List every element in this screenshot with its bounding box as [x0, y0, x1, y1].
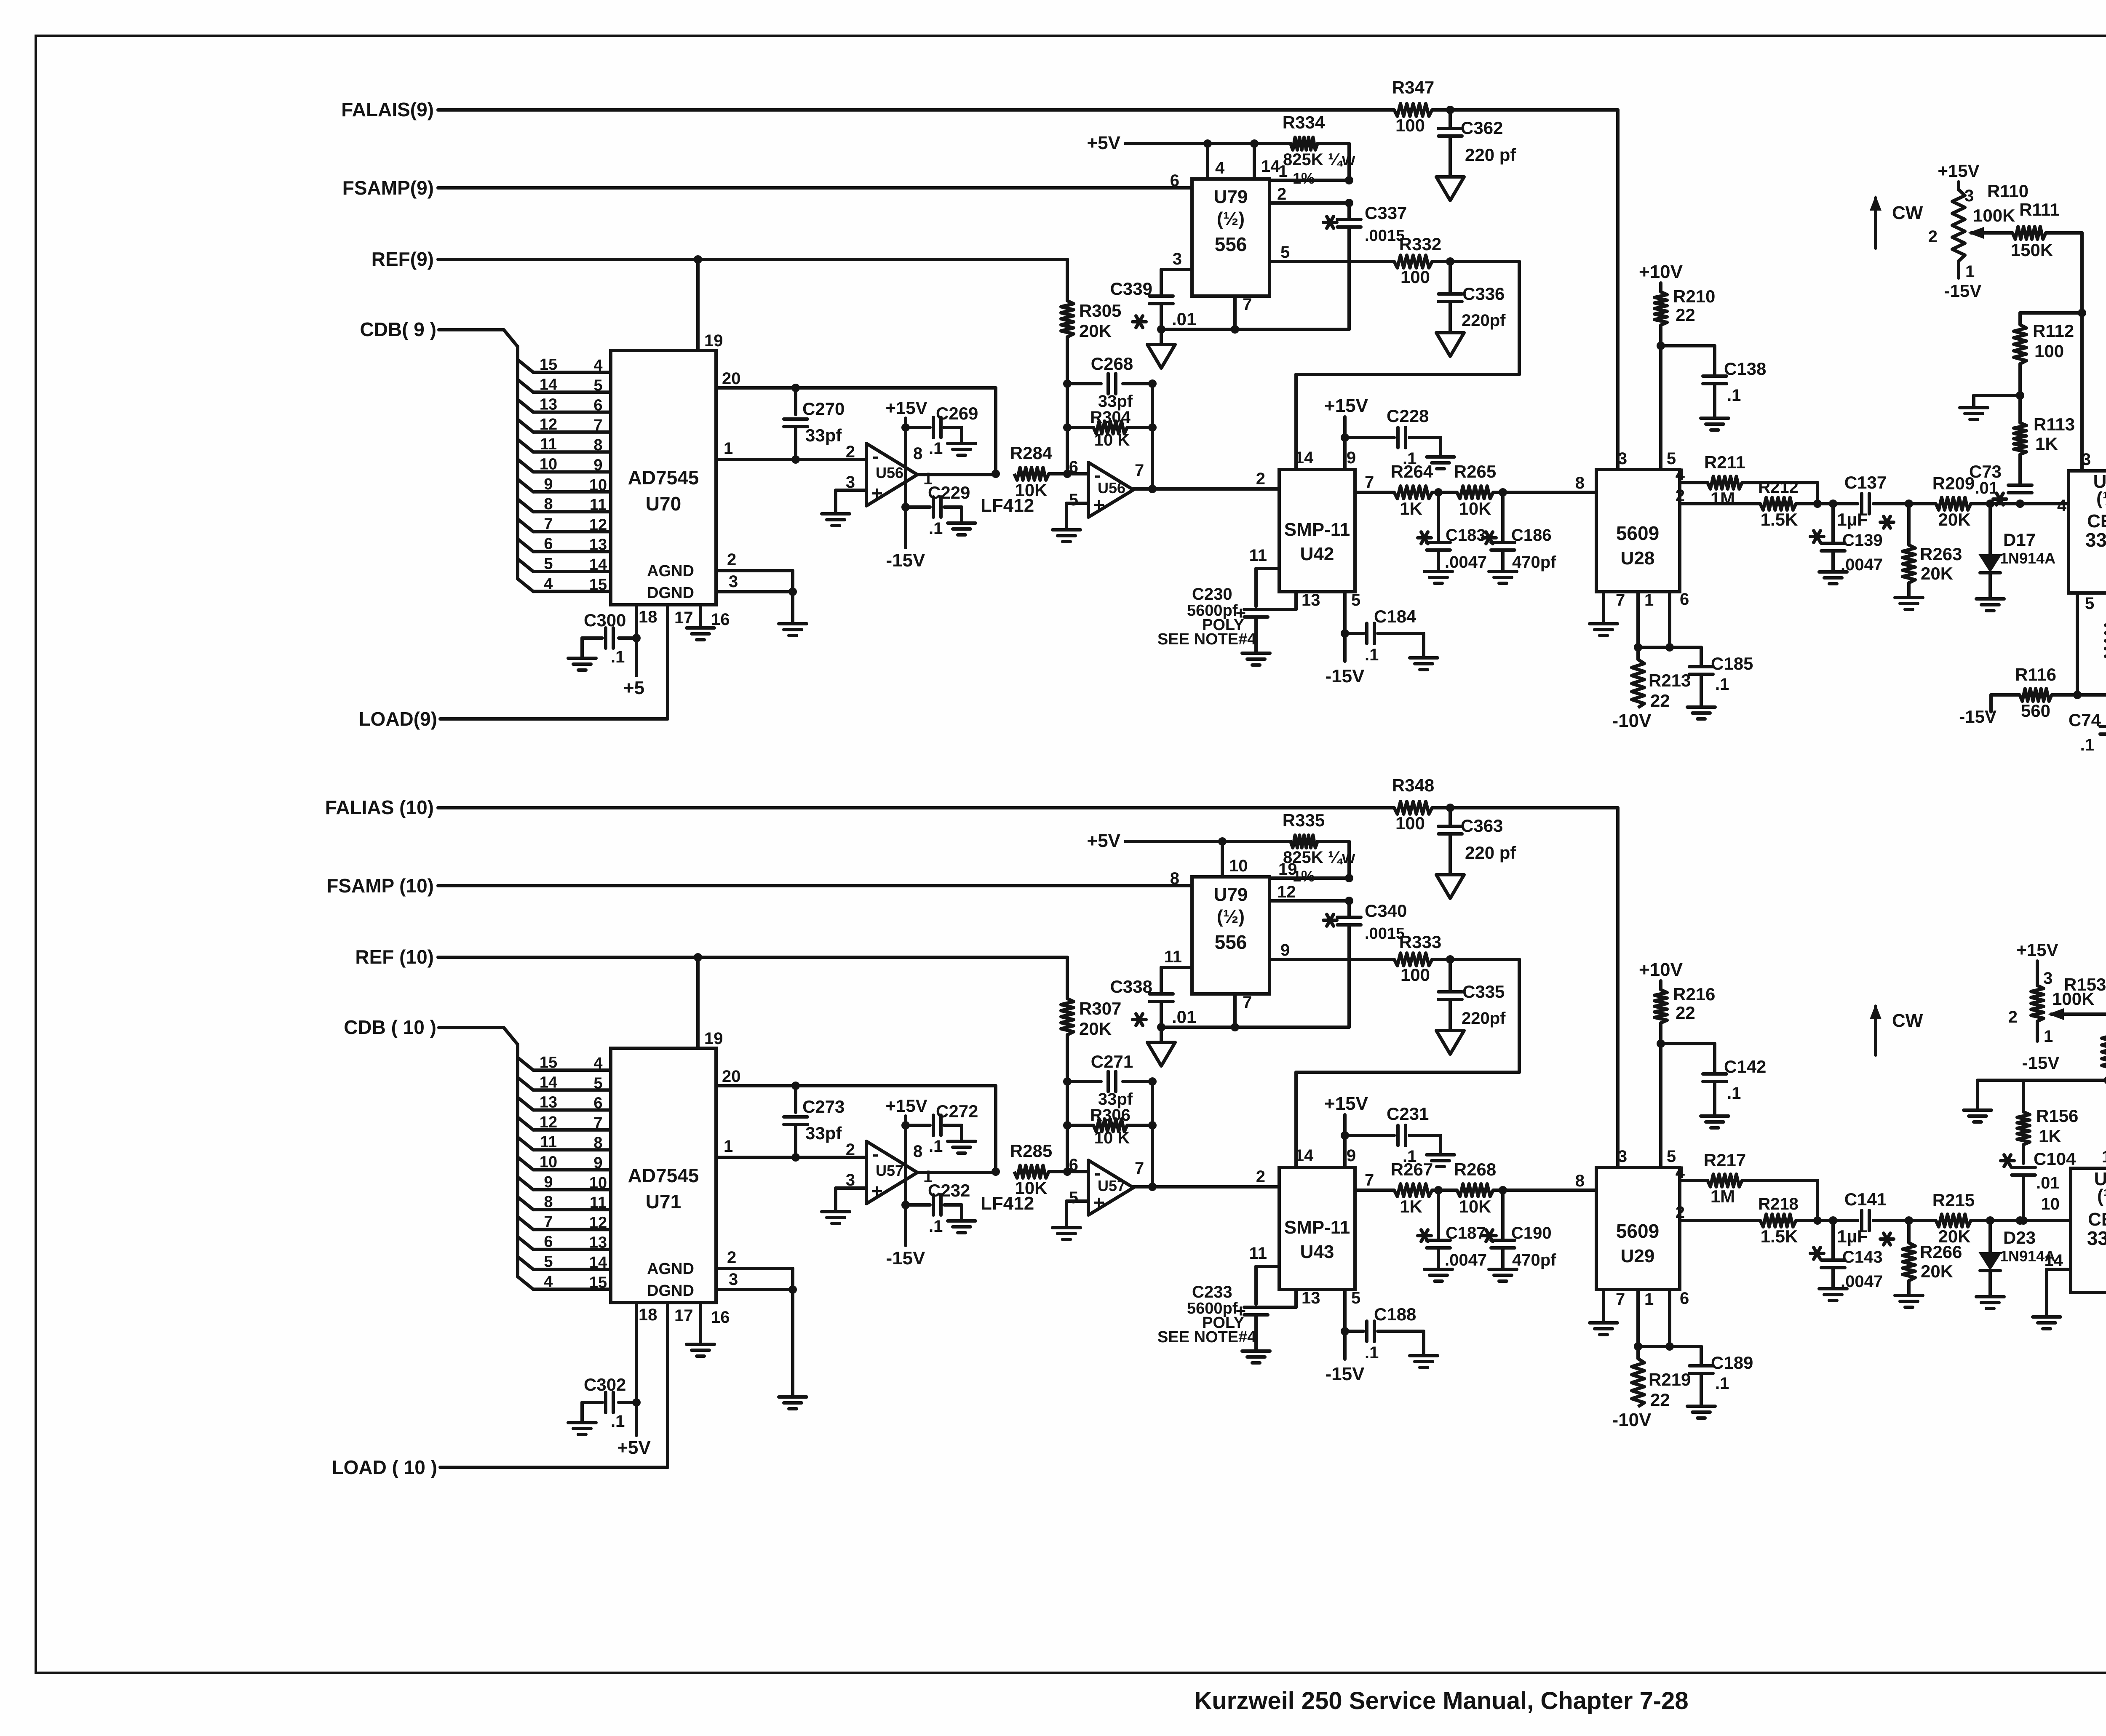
- svg-text:3335: 3335: [2085, 529, 2106, 551]
- svg-text:R215: R215: [1932, 1190, 1975, 1210]
- capacitor C339 .01: [1110, 279, 1197, 329]
- svg-text:5609: 5609: [1616, 522, 1659, 544]
- svg-text:C338: C338: [1110, 977, 1152, 996]
- power +5V rail: [1087, 831, 1291, 851]
- svg-text:-15V: -15V: [1944, 281, 1982, 301]
- resistor R332 100: [1394, 234, 1441, 287]
- IC UU70 AD7545 DAC: [611, 350, 716, 605]
- svg-text:-15V: -15V: [886, 550, 926, 571]
- capacitor C362 220pf: [1438, 110, 1516, 177]
- ground open triangle below C335: [1436, 1031, 1464, 1054]
- svg-text:1%: 1%: [1293, 170, 1315, 187]
- wire ground stub R112: [1974, 395, 2020, 408]
- svg-text:13: 13: [540, 396, 557, 414]
- node junction C273 bottom: [791, 1153, 800, 1162]
- capacitor C186 470pf: [1483, 492, 1556, 572]
- svg-text:C188: C188: [1374, 1304, 1416, 1324]
- capacitor C338 .01: [1110, 977, 1197, 1027]
- svg-text:R211: R211: [1704, 452, 1745, 472]
- capacitor C273 33pf: [784, 1086, 845, 1157]
- svg-text:1N914A: 1N914A: [2000, 550, 2055, 567]
- svg-text:19: 19: [704, 331, 723, 350]
- svg-text:C363: C363: [1461, 816, 1503, 836]
- svg-text:.1: .1: [611, 648, 625, 666]
- svg-text:20K: 20K: [1921, 1261, 1953, 1281]
- svg-text:4: 4: [593, 357, 602, 374]
- capacitor C188 .1: [1345, 1304, 1424, 1362]
- ground at C185: [1687, 707, 1715, 719]
- svg-text:10K: 10K: [1459, 499, 1491, 518]
- svg-text:8: 8: [1575, 1172, 1585, 1190]
- IC U16 (1/2) CEM 3335: [2069, 450, 2106, 593]
- svg-text:12: 12: [540, 416, 557, 433]
- svg-text:C270: C270: [802, 399, 845, 419]
- symbol CW arrow channel 10: [1870, 1004, 1923, 1055]
- svg-text:R333: R333: [1399, 932, 1441, 952]
- node junction C73: [2016, 499, 2024, 508]
- capacitor C185 .1: [1689, 647, 1753, 707]
- node CDB(10) label: [344, 1016, 436, 1038]
- svg-text:3: 3: [729, 572, 738, 591]
- wire below 5609 ch9: [1638, 646, 1701, 649]
- wire AGND pin 2: [716, 1248, 793, 1269]
- svg-text:+15V: +15V: [1324, 1093, 1368, 1114]
- svg-text:14: 14: [1295, 449, 1314, 467]
- power +10V rail: [1639, 959, 1683, 990]
- wire CDB bus bit lines with pin numbers: [518, 356, 611, 593]
- node junction pin 7: [1231, 1023, 1239, 1031]
- svg-text:6: 6: [544, 535, 553, 553]
- ground at C190: [1489, 1269, 1517, 1281]
- svg-text:15: 15: [589, 576, 607, 593]
- capacitor C363 220pf: [1438, 808, 1516, 875]
- node junction pin 12: [1345, 897, 1353, 905]
- svg-text:AD7545: AD7545: [628, 467, 699, 489]
- svg-text:D17: D17: [2003, 530, 2036, 550]
- wire CEM pin 5 down: [2077, 593, 2094, 695]
- wire 556 pin 19: [1269, 860, 1349, 879]
- resistor R267 1K: [1391, 1159, 1433, 1216]
- svg-text:17: 17: [674, 1306, 693, 1325]
- capacitor C335 220pf: [1438, 959, 1506, 1031]
- svg-text:556: 556: [1215, 931, 1247, 953]
- wire 556 pin 7 bottom: [1235, 295, 1252, 329]
- capacitor C189 .1: [1689, 1346, 1753, 1406]
- svg-text:+15V: +15V: [885, 1096, 927, 1116]
- svg-text:(½): (½): [2096, 488, 2106, 509]
- wire 556 pin 1: [1269, 162, 1349, 181]
- wire op-amp 1 pin 3 ground stub: [836, 490, 866, 514]
- wire AD7545 pin 1 to op-amp: [716, 439, 866, 459]
- wire 556 pin 7 bottom: [1235, 993, 1252, 1027]
- svg-text:R110: R110: [1987, 181, 2028, 201]
- svg-text:U56: U56: [876, 464, 903, 481]
- svg-text:U57: U57: [876, 1162, 903, 1179]
- capacitor C187 .0047: [1418, 1190, 1487, 1269]
- svg-text:CEM: CEM: [2088, 1209, 2106, 1230]
- capacitor C139 .0047: [1810, 504, 1883, 574]
- svg-text:.1: .1: [929, 1137, 943, 1156]
- svg-text:.1: .1: [1715, 675, 1729, 694]
- power +5V rail: [1087, 133, 1291, 153]
- ground open triangle below C336: [1436, 333, 1464, 356]
- svg-text:R209: R209: [1932, 473, 1975, 493]
- svg-text:.01: .01: [1172, 309, 1196, 329]
- ground at C184: [1410, 658, 1438, 670]
- node junction C336: [1446, 257, 1454, 266]
- capacitor C229 .1: [906, 483, 970, 538]
- svg-text:.0047: .0047: [1445, 1251, 1487, 1269]
- svg-text:14: 14: [2045, 1251, 2063, 1270]
- wire R217 loop to node: [1742, 1180, 1817, 1221]
- svg-text:CW: CW: [1892, 203, 1923, 223]
- svg-text:R212: R212: [1758, 478, 1799, 497]
- ground at AGND/DGND: [779, 624, 807, 636]
- svg-text:.1: .1: [1365, 646, 1379, 664]
- svg-text:R332: R332: [1399, 234, 1441, 254]
- power -10V ch9: [1612, 710, 1652, 731]
- svg-text:C232: C232: [928, 1180, 970, 1200]
- svg-text:1K: 1K: [1400, 1197, 1422, 1216]
- wire CEM pin 10 row: [2023, 1195, 2071, 1221]
- wire op-amp 2 output to SMP-11: [1133, 487, 1279, 491]
- label LF412: [981, 1193, 1034, 1214]
- svg-text:20K: 20K: [1938, 1226, 1970, 1246]
- op-amp U56 first half: [846, 443, 933, 506]
- svg-text:+15V: +15V: [1324, 395, 1368, 416]
- svg-text:R307: R307: [1079, 999, 1121, 1018]
- svg-text:5: 5: [1667, 1147, 1676, 1166]
- node FSAMP(9) label: [342, 177, 434, 199]
- svg-text:U56: U56: [1098, 479, 1125, 497]
- svg-text:7: 7: [1616, 1290, 1625, 1309]
- svg-text:16: 16: [711, 1308, 730, 1327]
- svg-text:1K: 1K: [2039, 1126, 2061, 1146]
- power +15V at SMP-11 pin 9: [1324, 1093, 1368, 1167]
- wire timing bus horizontal: [1161, 1026, 1349, 1029]
- ground at C229: [948, 523, 975, 535]
- power +15V at R110: [1938, 161, 1979, 190]
- svg-text:13: 13: [1302, 1289, 1320, 1307]
- capacitor C137 1uF: [1837, 473, 1894, 529]
- wire 556 out to SMP-11 pin 14: [1296, 262, 1519, 470]
- svg-text:7: 7: [1616, 591, 1625, 609]
- svg-text:C231: C231: [1387, 1104, 1429, 1124]
- svg-text:9: 9: [544, 1173, 553, 1191]
- resistor R263 20K: [1903, 504, 1962, 598]
- svg-text:C138: C138: [1724, 359, 1766, 379]
- svg-text:C336: C336: [1462, 284, 1505, 304]
- wire REF(9) horizontal: [438, 258, 1067, 261]
- svg-text:SEE NOTE#4: SEE NOTE#4: [1157, 630, 1256, 648]
- svg-text:2: 2: [1277, 185, 1286, 203]
- svg-text:5: 5: [1667, 449, 1676, 468]
- wire 556 pin 3 stub: [1161, 250, 1192, 295]
- svg-text:U43: U43: [1300, 1242, 1334, 1262]
- svg-text:REF (10): REF (10): [355, 946, 434, 968]
- svg-text:1µF: 1µF: [1837, 510, 1868, 529]
- wire SMP-11 pin 5 down: [1345, 591, 1360, 661]
- ground at op-amp 2 pin 5: [1053, 1228, 1080, 1239]
- power -15V label op-amp: [886, 507, 926, 571]
- node junction C273 top: [791, 1082, 800, 1090]
- svg-text:3: 3: [1618, 449, 1627, 468]
- wire LOAD(10) horizontal: [440, 1466, 668, 1469]
- svg-text:8: 8: [544, 1193, 553, 1211]
- wire VAMP row: [2052, 693, 2106, 697]
- node junction REF to DAC pin 19: [694, 255, 702, 264]
- node junction C188: [1341, 1327, 1349, 1335]
- power +15V rail op-amp: [885, 398, 927, 507]
- wire AD7545 pin 17 to LOAD: [668, 1304, 693, 1467]
- svg-text:DGND: DGND: [647, 584, 694, 602]
- IC U79 (1/2) 556: [1170, 869, 1269, 994]
- capacitor C269 .1: [906, 403, 978, 458]
- svg-text:-15V: -15V: [1326, 666, 1365, 686]
- power -10V ch10: [1612, 1410, 1652, 1430]
- svg-text:12: 12: [540, 1114, 557, 1131]
- svg-text:5: 5: [1351, 1289, 1360, 1307]
- svg-text:1: 1: [724, 1137, 733, 1156]
- node junction R112/R113: [2016, 391, 2024, 400]
- svg-text:(½): (½): [2097, 1186, 2106, 1206]
- ground open triangle below C363: [1436, 875, 1464, 898]
- svg-text:SEE NOTE#4: SEE NOTE#4: [1157, 1328, 1256, 1346]
- capacitor C340 .0015: [1323, 901, 1407, 1027]
- wire SMP-11 pin 5 down: [1345, 1289, 1360, 1359]
- svg-text:10: 10: [540, 1154, 557, 1171]
- svg-text:22: 22: [1676, 305, 1695, 325]
- svg-text:2: 2: [727, 550, 736, 569]
- power -15V label op-amp: [886, 1205, 926, 1269]
- svg-text:11: 11: [540, 435, 557, 453]
- svg-text:AGND: AGND: [647, 562, 694, 580]
- power -15V at R110: [1944, 281, 1982, 301]
- node junction DGND: [788, 1285, 797, 1294]
- node junction REF to DAC pin 19: [694, 953, 702, 961]
- wire AD7545 pin 18 / +5: [623, 606, 657, 698]
- node FSAMP(10) label: [326, 875, 434, 897]
- svg-text:-10V: -10V: [1612, 1410, 1652, 1430]
- svg-text:FSAMP(9): FSAMP(9): [342, 177, 434, 199]
- svg-text:1: 1: [1644, 591, 1654, 609]
- wire R307 to op-amp node: [1066, 1035, 1069, 1172]
- svg-text:C228: C228: [1387, 406, 1429, 426]
- svg-text:8: 8: [593, 436, 602, 454]
- svg-text:C362: C362: [1461, 118, 1503, 138]
- svg-text:.1: .1: [1727, 386, 1741, 405]
- power -15V at R153: [2022, 1053, 2060, 1073]
- ground at C231: [1427, 1155, 1454, 1167]
- resistor R285 10K: [1010, 1141, 1052, 1198]
- svg-text:20: 20: [722, 369, 741, 388]
- svg-text:7: 7: [1243, 295, 1252, 314]
- capacitor C141 1uF: [1837, 1189, 1894, 1246]
- ground at R263: [1895, 598, 1923, 609]
- capacitor C73 .01: [1969, 462, 2032, 505]
- resistor R156 1K: [2017, 1080, 2078, 1146]
- svg-text:7: 7: [544, 1213, 553, 1231]
- svg-text:13: 13: [589, 536, 607, 554]
- node junction below C338: [1157, 1023, 1165, 1031]
- svg-text:1K: 1K: [1400, 499, 1422, 518]
- svg-text:+15V: +15V: [885, 398, 927, 418]
- svg-text:FALIAS (10): FALIAS (10): [325, 796, 434, 818]
- potentiometer R153 100K: [2008, 969, 2106, 1046]
- capacitor C271 33pf: [1067, 1052, 1152, 1108]
- svg-text:3: 3: [1173, 250, 1182, 268]
- svg-text:CW: CW: [1892, 1010, 1923, 1031]
- wire 5609 pin 1 down ch10: [1638, 1290, 1654, 1346]
- svg-text:U79: U79: [1214, 187, 1248, 207]
- node CDB(9) label: [360, 318, 436, 340]
- svg-text:.1: .1: [1365, 1343, 1379, 1362]
- wire feedback right vertical: [1151, 1082, 1154, 1187]
- wire to CEM pin 4: [2020, 497, 2069, 515]
- wire R284 to inverting node: [1049, 472, 1088, 475]
- svg-text:+10V: +10V: [1639, 959, 1683, 980]
- resistor R212 1.5K: [1758, 478, 1799, 529]
- svg-text:8: 8: [1575, 474, 1585, 492]
- svg-text:19: 19: [704, 1029, 723, 1048]
- svg-text:14: 14: [589, 556, 607, 574]
- svg-text:14: 14: [540, 1074, 557, 1091]
- wire 556 pin 14: [1254, 144, 1280, 179]
- svg-text:C273: C273: [802, 1097, 845, 1116]
- ground at D17: [1976, 599, 2004, 611]
- node junction C363 tap: [1446, 804, 1454, 812]
- wire R110 wiper: [1968, 227, 2012, 239]
- svg-text:C230: C230: [1192, 585, 1232, 604]
- wire FSAMP(10) to 556 pin 8: [438, 884, 1192, 887]
- ground at C269: [948, 443, 975, 455]
- node junction D17: [1971, 499, 2020, 508]
- svg-text:U42: U42: [1300, 544, 1334, 564]
- svg-text:(½): (½): [1217, 906, 1245, 927]
- svg-text:C190: C190: [1511, 1224, 1552, 1242]
- svg-text:C137: C137: [1844, 473, 1887, 492]
- svg-text:C143: C143: [1842, 1248, 1883, 1266]
- wire 5609 pin 7 ground ch10: [1604, 1290, 1625, 1323]
- svg-text:7: 7: [544, 515, 553, 533]
- node junction pin 1: [1345, 176, 1353, 184]
- wire 556 pin 12: [1269, 883, 1349, 901]
- svg-text:15: 15: [540, 1054, 557, 1071]
- resistor R219 22: [1632, 1346, 1691, 1410]
- wire op-amp 1 pin 3 ground stub: [836, 1188, 866, 1212]
- svg-text:1: 1: [1644, 1290, 1654, 1309]
- svg-text:1: 1: [1965, 262, 1975, 281]
- wire DGND pin 3: [716, 571, 793, 624]
- svg-text:6: 6: [1680, 590, 1689, 609]
- wire REF(10) horizontal: [438, 956, 1067, 959]
- ground at rail left: [1964, 1110, 1991, 1122]
- ground at C188: [1410, 1356, 1438, 1367]
- svg-text:R335: R335: [1283, 810, 1325, 830]
- capacitor C230 5600pf POLY: [1157, 585, 1268, 653]
- svg-text:R111: R111: [2019, 200, 2060, 219]
- svg-text:13: 13: [589, 1234, 607, 1252]
- resistor R307 20K: [1061, 999, 1121, 1039]
- node junction C362 tap: [1446, 106, 1454, 114]
- power +15V at SMP-11 pin 9: [1324, 395, 1368, 470]
- svg-text:C229: C229: [928, 483, 970, 502]
- svg-text:7: 7: [593, 417, 602, 434]
- svg-text:.1: .1: [929, 439, 943, 458]
- svg-text:R264: R264: [1391, 462, 1433, 481]
- potentiometer R110 100K: [1928, 181, 2028, 281]
- IC U16 (1/2) CEM 3335 second half: [2071, 1148, 2106, 1293]
- wire SMP-11 pin 13 stub: [1256, 1289, 1320, 1307]
- svg-text:R112: R112: [2033, 321, 2074, 341]
- svg-text:U70: U70: [646, 493, 681, 515]
- svg-text:C272: C272: [936, 1101, 978, 1121]
- svg-text:+: +: [1093, 494, 1105, 515]
- svg-text:9: 9: [1347, 449, 1356, 467]
- svg-text:C183: C183: [1446, 526, 1486, 545]
- ground at C272: [948, 1141, 975, 1153]
- wire FALAIS(9) to 5609 pin 3: [1432, 110, 1618, 470]
- capacitor C233 5600pf POLY: [1157, 1283, 1268, 1351]
- svg-text:R217: R217: [1704, 1150, 1746, 1170]
- svg-text:6: 6: [1170, 171, 1179, 190]
- node junction feedback/output: [992, 1167, 1000, 1176]
- ground at C139: [1819, 572, 1847, 584]
- svg-text:17: 17: [674, 609, 693, 627]
- svg-text:+15V: +15V: [2016, 940, 2058, 960]
- ground at C189: [1687, 1406, 1715, 1418]
- svg-text:10: 10: [589, 476, 607, 494]
- svg-text:C185: C185: [1711, 654, 1753, 673]
- capacitor C336 220pf: [1438, 262, 1506, 333]
- svg-text:C233: C233: [1192, 1283, 1232, 1301]
- svg-text:100K: 100K: [1973, 206, 2015, 225]
- node junction C142: [1657, 1039, 1665, 1048]
- wire ground rail: [1978, 1072, 2106, 1168]
- svg-text:11: 11: [1164, 948, 1182, 966]
- IC U29 5609: [1596, 1147, 1680, 1290]
- node junction pin 2: [1345, 199, 1353, 207]
- node junction C300: [632, 634, 641, 642]
- wire 556 pin 10: [1222, 841, 1248, 877]
- svg-text:9: 9: [593, 1154, 602, 1172]
- svg-text:5: 5: [1069, 1188, 1078, 1207]
- node junction output feedback: [1148, 1183, 1157, 1191]
- wire +10V to 5609 pin 5: [1659, 1023, 1662, 1167]
- svg-text:-15V: -15V: [2022, 1053, 2060, 1073]
- node junction C104: [2016, 1216, 2024, 1225]
- wire op-amp 1 output: [917, 473, 996, 476]
- node junction DGND: [788, 588, 797, 596]
- node junction C269: [901, 423, 910, 432]
- svg-text:+: +: [871, 482, 883, 504]
- svg-text:18: 18: [639, 1306, 657, 1324]
- svg-text:4: 4: [1215, 159, 1225, 177]
- wire below 5609 ch10: [1638, 1345, 1701, 1348]
- svg-text:4: 4: [593, 1055, 602, 1072]
- resistor R112 100: [2014, 313, 2074, 364]
- svg-text:R268: R268: [1454, 1159, 1496, 1179]
- wire REF to AD7545 pin 19: [698, 957, 723, 1048]
- label LF412: [981, 495, 1034, 516]
- svg-text:U57: U57: [1098, 1177, 1125, 1194]
- svg-text:33pf: 33pf: [805, 1123, 842, 1143]
- svg-text:R267: R267: [1391, 1159, 1433, 1179]
- wire AD7545 pin 20 feedback: [716, 369, 996, 474]
- wire feedback left vertical: [1066, 1082, 1069, 1172]
- svg-text:.01: .01: [1172, 1007, 1196, 1027]
- wire REF down to R305: [1066, 259, 1069, 301]
